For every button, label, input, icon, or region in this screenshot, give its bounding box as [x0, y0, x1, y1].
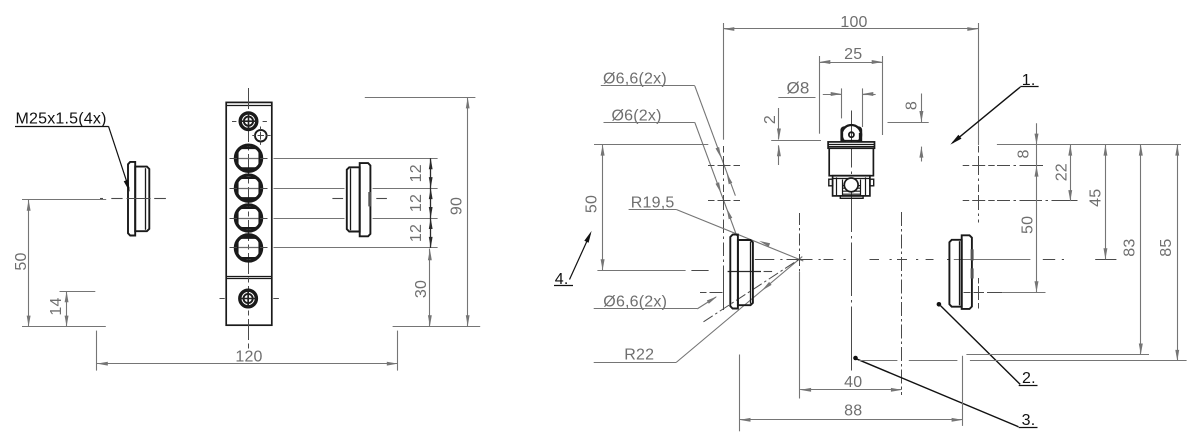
svg-text:8: 8 [903, 101, 920, 110]
screw S1 (top) [232, 113, 267, 130]
hole center mark A1 [708, 165, 740, 167]
hole centerline vertical right [978, 146, 980, 309]
cable gland nut N2 (front) [230, 175, 268, 201]
svg-text:90: 90 [448, 197, 465, 215]
svg-text:120: 120 [235, 349, 262, 366]
svg-text:Ø6,6(2x): Ø6,6(2x) [603, 70, 667, 87]
svg-text:50: 50 [583, 195, 600, 213]
svg-text:22: 22 [1053, 163, 1070, 181]
svg-text:85: 85 [1158, 238, 1175, 256]
label diameter 6,6 (2x) lower with leader [594, 294, 718, 311]
svg-text:2.: 2. [1022, 370, 1036, 387]
label 1 with leader [950, 72, 1038, 145]
reference line 50 bottom (right) [1002, 292, 1045, 294]
cable gland nut N4 (front) [230, 235, 268, 261]
svg-text:40: 40 [844, 374, 862, 391]
hole centerline vertical left [723, 146, 725, 310]
extension line gland row 2 [274, 188, 438, 190]
extension line gland row 3 [274, 218, 438, 220]
svg-text:2: 2 [762, 115, 779, 124]
cable gland G3 (right view left) [730, 235, 753, 309]
dimension 100 [723, 14, 978, 145]
main horizontal centerline [755, 259, 1117, 261]
gland G3 centerline and 50-reference [597, 271, 772, 272]
cable gland nut N3 (front) [230, 205, 268, 231]
vertex vertical centerline [799, 213, 801, 399]
dimension diameter 8 [778, 78, 875, 127]
dimension chain 12 12 12 [408, 158, 433, 248]
label 4 with leader [554, 231, 592, 288]
svg-text:45: 45 [1088, 189, 1105, 207]
svg-text:100: 100 [840, 14, 867, 31]
svg-text:83: 83 [1121, 238, 1138, 256]
dimension 14 [48, 291, 95, 326]
diagonal centerline to vertex [704, 259, 800, 322]
switch body [828, 142, 874, 176]
dimension 30 [413, 249, 432, 327]
hole center mark A2 [708, 200, 740, 202]
radius R19,5 leader [629, 195, 804, 262]
svg-text:30: 30 [413, 280, 430, 298]
cable gland G2 side view (middle) [347, 163, 371, 236]
svg-text:88: 88 [844, 402, 862, 419]
dimension 85 [859, 145, 1187, 361]
cable gland G4 (right view right) [949, 235, 973, 309]
switch roller and bracket [841, 125, 862, 144]
screw S2 (bottom) [220, 290, 279, 307]
svg-text:3.: 3. [1022, 412, 1036, 429]
hole center mark A3 [700, 277, 724, 310]
switch plunger housing with ball and spring [829, 176, 874, 199]
centerline x=902 [901, 212, 903, 395]
dimension 25 [819, 46, 882, 135]
top reference line (right view) [594, 144, 1181, 146]
radius R22 leader [594, 257, 803, 364]
centerline gland G2 [332, 198, 387, 200]
svg-text:R22: R22 [624, 346, 654, 363]
svg-text:12: 12 [408, 224, 425, 242]
svg-text:50: 50 [13, 252, 30, 270]
svg-text:12: 12 [408, 164, 425, 182]
label diameter 6,6 (2x) upper with leader [601, 70, 736, 195]
bottom reference line [22, 326, 480, 328]
dimension 22 [1053, 145, 1072, 202]
small hole H0 [252, 127, 270, 145]
svg-text:25: 25 [844, 46, 862, 63]
svg-text:8: 8 [1015, 149, 1032, 158]
dimension 2 [762, 108, 821, 165]
dimension 90 [365, 97, 476, 326]
label 2 with leader dot [937, 302, 1038, 387]
svg-text:14: 14 [48, 297, 65, 315]
svg-text:Ø8: Ø8 [787, 78, 810, 97]
dimensions 8 and 50 (right stack) [1015, 123, 1038, 292]
cable gland nut N1 (front) [230, 145, 268, 171]
label diameter 6 (2x) with leader [604, 107, 737, 236]
dimension 45 [1088, 145, 1108, 260]
svg-text:M25x1.5(4x): M25x1.5(4x) [16, 111, 107, 128]
dimension 50 (left view) [13, 200, 106, 327]
mounting plate outline [226, 102, 272, 325]
extension line gland row 4 [274, 247, 438, 249]
hole center mark B3 [964, 292, 1003, 294]
label M25x1.5(4x) with leader [15, 111, 130, 192]
dimension 8 (switch) [888, 94, 929, 162]
svg-text:50: 50 [1020, 216, 1037, 234]
cable gland G1 side view (left) [128, 162, 149, 236]
hole center mark B2 [963, 200, 1078, 202]
svg-text:Ø6(2x): Ø6(2x) [612, 107, 662, 124]
dimension 83 [966, 145, 1149, 355]
centerline gland G1 [100, 198, 166, 200]
dimension 40 [800, 374, 902, 392]
svg-text:12: 12 [408, 194, 425, 212]
extension line gland row 1 [274, 158, 438, 160]
label 3 with leader dot [853, 356, 1037, 429]
hole center mark B1 [963, 165, 1043, 167]
dimension 120 [97, 331, 398, 371]
plate vertical centerline [248, 88, 250, 351]
dimension 88 [740, 355, 963, 432]
switch vertical centerline [851, 111, 853, 371]
dimension 50 (right view) [583, 145, 604, 271]
